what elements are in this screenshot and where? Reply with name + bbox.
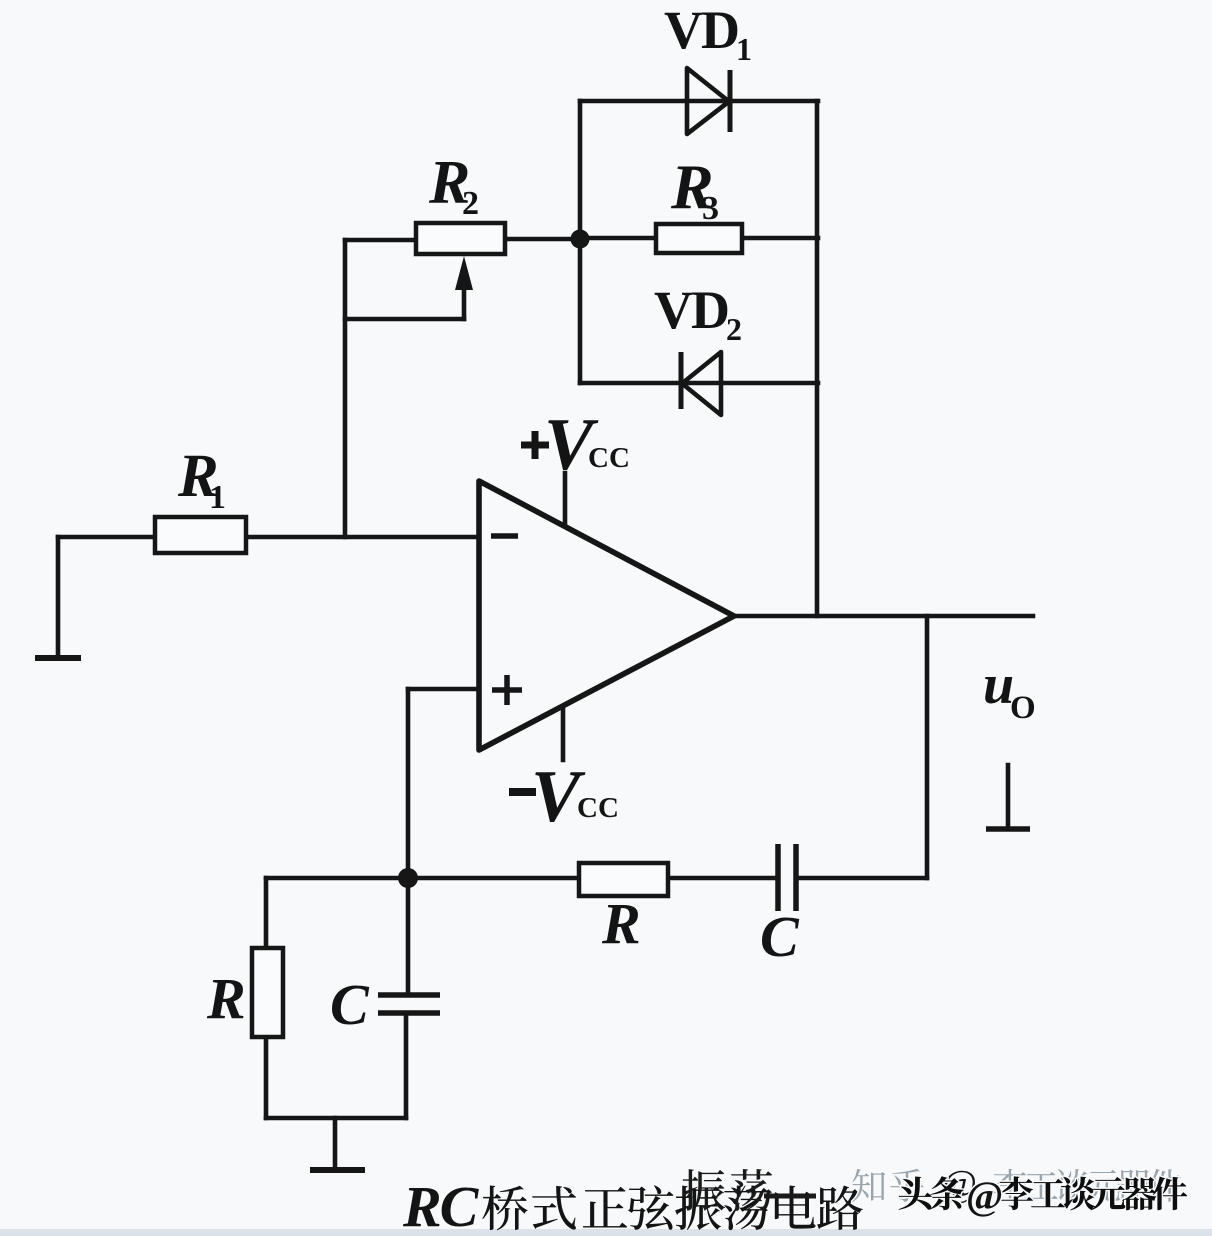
wire left vertical of feedback block — [578, 101, 583, 383]
svg-text:R: R — [601, 891, 641, 956]
wire op-amp output — [734, 614, 1033, 619]
caption ghost overlap — [682, 1169, 725, 1211]
watermark toutiao black — [899, 1177, 932, 1210]
svg-text:2: 2 — [462, 185, 479, 222]
wire bottom feedback left segment — [266, 876, 579, 881]
wire feedback right vertical — [925, 616, 930, 878]
wire between series R and series C — [668, 876, 778, 881]
wire parallel C upper — [406, 878, 411, 995]
wire -Vcc stub — [561, 707, 566, 760]
ground left — [35, 655, 81, 661]
node A junction dot — [571, 230, 590, 249]
svg-text:C: C — [760, 904, 800, 969]
svg-text:R: R — [206, 966, 246, 1031]
label -Vcc — [509, 788, 536, 796]
caption ghost stray stroke — [764, 1194, 816, 1199]
svg-text:CC: CC — [588, 442, 630, 474]
potentiometer R2 body — [416, 223, 505, 254]
wire R1 right to op-amp inverting input — [246, 535, 479, 540]
svg-text:1: 1 — [209, 479, 226, 516]
R2 wiper arrowhead — [455, 256, 473, 290]
wire left parallel branch upper — [264, 878, 269, 948]
diode VD1 — [687, 68, 729, 134]
label +Vcc — [521, 431, 549, 459]
wire VD2 branch — [580, 381, 818, 386]
capacitor C series plates — [778, 844, 796, 911]
ground bottom — [310, 1167, 365, 1173]
node B junction dot — [398, 868, 418, 888]
wire ground stub left — [56, 537, 61, 655]
wire top branch VD1 — [580, 99, 818, 104]
wire +Vcc stub — [563, 473, 568, 523]
bottom edge strip — [0, 1229, 1212, 1236]
wire R3 branch — [580, 236, 818, 241]
wire non-inverting input — [408, 687, 479, 692]
op-amp U1 — [479, 481, 734, 750]
resistor R parallel body — [252, 948, 283, 1037]
resistor R3 body — [656, 224, 742, 253]
svg-text:2: 2 — [726, 311, 742, 347]
wire R2 wiper horizontal — [345, 317, 464, 322]
wire output ground stub — [1006, 765, 1011, 827]
wire bottom connecting R and C — [266, 1116, 406, 1121]
resistor R series body — [579, 863, 668, 896]
op-amp plus sign — [492, 675, 522, 705]
resistor R1 body — [155, 517, 246, 553]
wire left vertical from R2 down to R1 line — [343, 240, 348, 537]
wire bottom ground stub — [333, 1118, 338, 1168]
wire R1 left — [58, 535, 155, 540]
svg-text:VD: VD — [654, 280, 728, 340]
wire R2 wiper stem — [462, 284, 467, 319]
wire right vertical of feedback block — [815, 101, 820, 616]
ground output — [986, 826, 1030, 832]
wire left parallel branch lower — [264, 1037, 269, 1118]
wire parallel C lower — [404, 1013, 409, 1118]
svg-text:1: 1 — [736, 31, 752, 67]
wire series C to feedback vertical — [796, 876, 927, 881]
diode VD2 — [682, 352, 721, 415]
svg-text:C: C — [330, 972, 370, 1037]
watermark zhihu grey — [852, 1169, 885, 1202]
wire from + input down to node B — [406, 689, 411, 878]
svg-text:3: 3 — [702, 190, 719, 227]
svg-text:@: @ — [966, 1173, 1003, 1218]
svg-text:VD: VD — [664, 0, 738, 60]
wire R2 right to node — [505, 237, 580, 242]
capacitor C parallel plates — [378, 995, 440, 1013]
op-amp minus sign — [491, 533, 518, 539]
svg-text:CC: CC — [577, 792, 619, 824]
wire R2 left — [345, 238, 416, 243]
svg-text:O: O — [1010, 690, 1036, 726]
svg-text:RC: RC — [402, 1174, 480, 1236]
